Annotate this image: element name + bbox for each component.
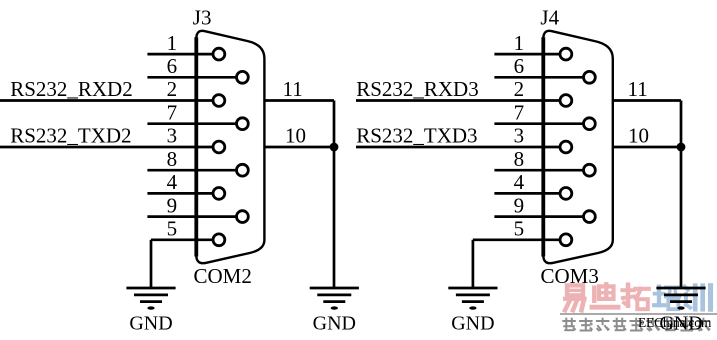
J4 pin 3 circle bbox=[560, 141, 572, 153]
svg-text:RS232_RXD2: RS232_RXD2 bbox=[10, 77, 133, 101]
svg-text:6: 6 bbox=[167, 54, 178, 78]
wire J3 pin 8 bbox=[147, 169, 236, 172]
svg-text:RS232_TXD2: RS232_TXD2 bbox=[10, 124, 131, 148]
svg-text:8: 8 bbox=[514, 147, 525, 171]
svg-text:11: 11 bbox=[283, 77, 303, 101]
svg-text:RS232_TXD3: RS232_TXD3 bbox=[356, 124, 477, 148]
svg-text:6: 6 bbox=[514, 54, 525, 78]
junction J3 pins 10/11 bbox=[330, 143, 339, 152]
ground (GND) under J4 pin 5 bbox=[448, 288, 497, 335]
wire J3 shield to ground (vertical) bbox=[333, 101, 336, 289]
svg-text:5: 5 bbox=[167, 217, 178, 241]
svg-text:10: 10 bbox=[628, 124, 649, 148]
wire J3 pin 11 stub bbox=[264, 99, 334, 102]
svg-text:GND: GND bbox=[129, 313, 172, 335]
wire J3 pin 5 to ground (vertical) bbox=[150, 240, 153, 288]
ground (GND) under J3 pin 5 bbox=[126, 288, 175, 335]
J4 pin 9 circle bbox=[584, 211, 596, 223]
wire J3 pin 5 bbox=[151, 238, 213, 241]
ground (GND) under J4 shield wire bbox=[656, 288, 705, 335]
svg-text:J3: J3 bbox=[193, 6, 212, 30]
svg-text:GND: GND bbox=[451, 313, 494, 335]
svg-text:GND: GND bbox=[659, 313, 702, 335]
J4 pin 4 circle bbox=[560, 188, 572, 200]
wire J4 pin 8 bbox=[494, 169, 583, 172]
svg-text:J4: J4 bbox=[540, 6, 559, 30]
svg-text:2: 2 bbox=[167, 77, 178, 101]
J3 pin 9 circle bbox=[237, 211, 249, 223]
wire J4 shield to ground (vertical) bbox=[680, 101, 683, 289]
svg-text:GND: GND bbox=[313, 313, 356, 335]
wire J3 pin 3 bbox=[0, 146, 213, 149]
J3 pin 6 circle bbox=[237, 71, 249, 83]
junction J4 pins 10/11 bbox=[677, 143, 686, 152]
svg-text:7: 7 bbox=[167, 100, 178, 124]
svg-text:2: 2 bbox=[514, 77, 525, 101]
watermark divider line (decor) bbox=[560, 313, 717, 315]
wire J3 pin 7 bbox=[147, 122, 236, 125]
svg-text:4: 4 bbox=[514, 170, 525, 194]
wire J4 pin 6 bbox=[494, 76, 583, 79]
svg-text:COM3: COM3 bbox=[541, 264, 599, 288]
wire J3 pin 1 bbox=[147, 53, 212, 56]
svg-text:5: 5 bbox=[514, 217, 525, 241]
J3 pin 7 circle bbox=[237, 118, 249, 130]
J4 pin 6 circle bbox=[584, 71, 596, 83]
wire J3 pin 4 bbox=[147, 192, 212, 195]
wire J3 pin 10 stub bbox=[264, 146, 334, 149]
J4 pin 7 circle bbox=[584, 118, 596, 130]
svg-text:7: 7 bbox=[514, 100, 525, 124]
svg-text:1: 1 bbox=[514, 31, 525, 55]
wire J4 pin 5 bbox=[473, 238, 560, 241]
ground (GND) under J3 shield wire bbox=[310, 288, 359, 335]
svg-text:9: 9 bbox=[514, 193, 525, 217]
svg-text:9: 9 bbox=[167, 193, 178, 217]
connector J3 (DB9 female) bbox=[196, 31, 264, 263]
J3 pin 4 circle bbox=[213, 188, 225, 200]
J3 pin 8 circle bbox=[237, 164, 249, 176]
svg-text:3: 3 bbox=[167, 124, 178, 148]
wire J4 pin 9 bbox=[494, 215, 583, 218]
J3 pin 2 circle bbox=[213, 95, 225, 107]
wire J4 pin 4 bbox=[494, 192, 559, 195]
svg-text:8: 8 bbox=[167, 147, 178, 171]
wire J4 pin 5 to ground (vertical) bbox=[472, 240, 475, 288]
connector J4 (DB9 female) bbox=[543, 31, 613, 263]
J3 pin 1 circle bbox=[213, 48, 225, 60]
svg-text:10: 10 bbox=[285, 124, 306, 148]
J4 pin 5 circle bbox=[560, 234, 572, 246]
wire J4 pin 2 bbox=[356, 99, 560, 102]
J3 pin 3 circle bbox=[213, 141, 225, 153]
wire J4 pin 1 bbox=[494, 53, 559, 56]
svg-text:3: 3 bbox=[514, 124, 525, 148]
wire J3 pin 6 bbox=[147, 76, 236, 79]
wire J4 pin 3 bbox=[356, 146, 560, 149]
J4 pin 2 circle bbox=[560, 95, 572, 107]
svg-text:RS232_RXD3: RS232_RXD3 bbox=[356, 77, 479, 101]
wire J3 pin 9 bbox=[147, 215, 236, 218]
svg-text:11: 11 bbox=[628, 77, 648, 101]
wire J4 pin 7 bbox=[494, 122, 583, 125]
wire J4 pin 11 stub bbox=[613, 99, 681, 102]
wire J3 pin 2 bbox=[0, 99, 213, 102]
watermark logo: big CJK characters (decor) bbox=[565, 284, 711, 310]
J4 pin 1 circle bbox=[560, 48, 572, 60]
watermark slogan row (gray CJK, decor) bbox=[562, 318, 710, 331]
svg-text:1: 1 bbox=[167, 31, 178, 55]
svg-text:4: 4 bbox=[167, 170, 178, 194]
svg-text:COM2: COM2 bbox=[194, 264, 252, 288]
wire J4 pin 10 stub bbox=[613, 146, 681, 149]
J4 pin 8 circle bbox=[584, 164, 596, 176]
J3 pin 5 circle bbox=[213, 234, 225, 246]
